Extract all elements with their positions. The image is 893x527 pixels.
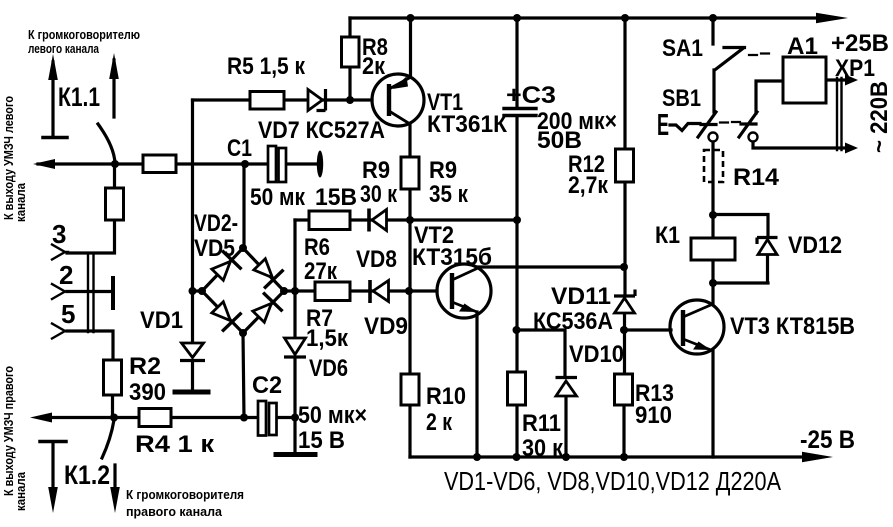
svg-text:2к: 2к (362, 53, 386, 80)
svg-text:30 к: 30 к (360, 181, 398, 208)
svg-text:50В: 50В (537, 127, 582, 154)
svg-text:К1.2: К1.2 (64, 460, 110, 490)
svg-text:R11: R11 (522, 410, 561, 437)
svg-text:50 мк: 50 мк (250, 184, 306, 211)
svg-text:27к: 27к (304, 258, 338, 285)
svg-text:VD2-: VD2- (194, 210, 238, 237)
svg-text:К1: К1 (655, 222, 680, 249)
svg-text:VD10: VD10 (569, 341, 624, 368)
svg-text:VD11: VD11 (551, 283, 611, 310)
svg-text:левого канала: левого канала (28, 41, 100, 56)
svg-text:+25В: +25В (831, 30, 889, 57)
svg-text:R6: R6 (304, 234, 330, 261)
svg-text:С1: С1 (227, 135, 252, 162)
svg-text:VD7 КС527А: VD7 КС527А (258, 117, 385, 144)
svg-text:VD1: VD1 (140, 307, 183, 334)
svg-text:R9: R9 (362, 157, 390, 184)
svg-text:SA1: SA1 (662, 35, 703, 62)
svg-text:~ 220В: ~ 220В (866, 81, 893, 153)
svg-text:2: 2 (59, 260, 73, 290)
svg-text:VD6: VD6 (309, 355, 348, 382)
svg-text:КТ315б: КТ315б (412, 244, 492, 271)
svg-text:Е: Е (657, 107, 669, 142)
svg-text:R2: R2 (129, 353, 161, 380)
svg-text:правого канала: правого канала (126, 504, 223, 519)
svg-text:910: 910 (635, 402, 672, 429)
svg-text:К громкоговорителю: К громкоговорителю (28, 27, 140, 42)
svg-text:КТ361К: КТ361К (427, 111, 507, 138)
svg-text:А1: А1 (787, 33, 818, 60)
svg-text:+С3: +С3 (506, 82, 556, 109)
svg-text:R10: R10 (426, 383, 466, 410)
svg-text:VT3 КТ815В: VT3 КТ815В (730, 313, 855, 340)
svg-text:R14: R14 (733, 164, 780, 191)
svg-text:1,5к: 1,5к (306, 325, 349, 352)
svg-text:канала: канала (13, 182, 28, 222)
svg-text:канала: канала (13, 471, 28, 511)
svg-text:VD5: VD5 (194, 235, 235, 262)
svg-text:-25 В: -25 В (800, 426, 855, 454)
svg-text:К громкоговорителя: К громкоговорителя (126, 487, 244, 502)
svg-text:2,7к: 2,7к (568, 172, 609, 199)
svg-text:КС536А: КС536А (533, 308, 613, 335)
svg-text:35 к: 35 к (429, 181, 469, 208)
svg-text:390: 390 (129, 379, 166, 406)
svg-text:R9: R9 (429, 157, 457, 184)
svg-text:15В: 15В (315, 184, 357, 211)
svg-text:30 к: 30 к (522, 435, 564, 462)
svg-text:С2: С2 (252, 372, 282, 399)
svg-text:VD9: VD9 (364, 313, 408, 340)
svg-text:3: 3 (52, 219, 66, 249)
svg-text:К1.1: К1.1 (58, 82, 100, 112)
svg-text:R5 1,5 к: R5 1,5 к (227, 53, 306, 80)
svg-text:ХР1: ХР1 (835, 55, 875, 82)
svg-text:2 к: 2 к (426, 409, 453, 436)
svg-text:VD1-VD6, VD8,VD10,VD12 Д220А: VD1-VD6, VD8,VD10,VD12 Д220А (444, 466, 782, 496)
svg-text:5: 5 (61, 299, 75, 329)
svg-text:R4 1 к: R4 1 к (135, 431, 215, 458)
svg-text:15 В: 15 В (298, 427, 345, 454)
svg-text:VD8: VD8 (356, 246, 397, 273)
svg-text:50 мк×: 50 мк× (298, 402, 367, 429)
svg-text:VD12: VD12 (788, 232, 842, 259)
